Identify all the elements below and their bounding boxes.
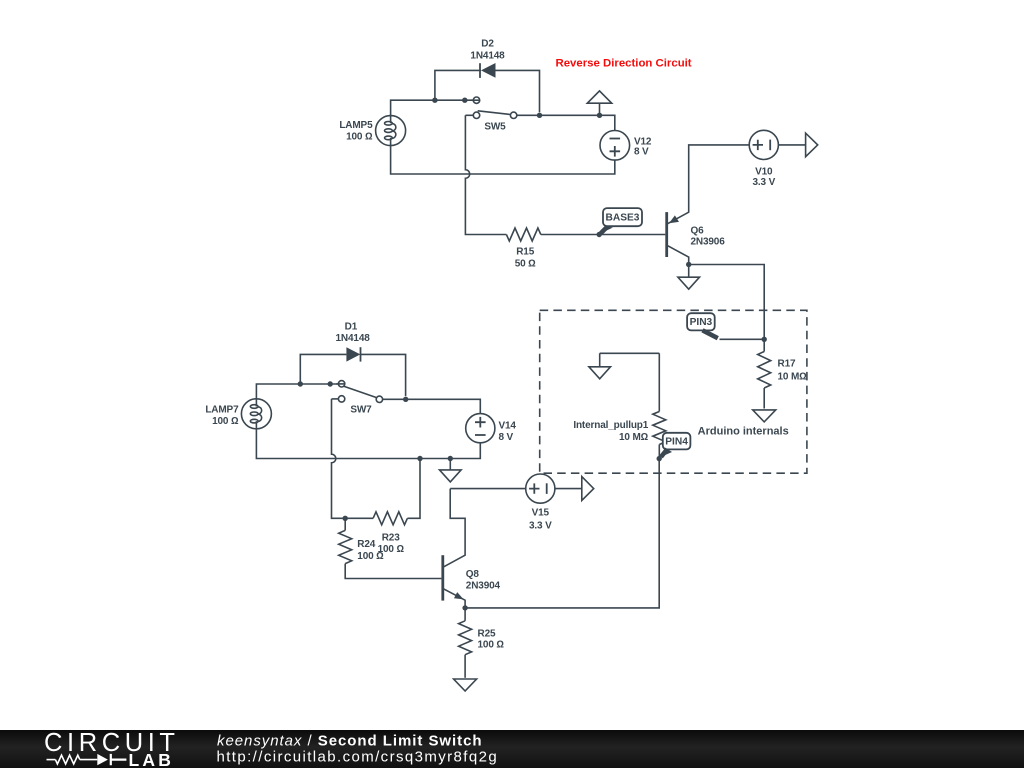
svg-text:V15: V15 <box>532 508 550 519</box>
svg-text:PIN4: PIN4 <box>665 436 688 447</box>
output flag triangle <box>806 133 818 157</box>
wire V14 bottom loop to LAMP7 <box>256 429 480 459</box>
CircuitLab logo resistor-diode glyph <box>47 759 56 761</box>
svg-text:V10: V10 <box>755 167 773 178</box>
svg-text:10 MΩ: 10 MΩ <box>778 372 808 383</box>
svg-text:R15: R15 <box>516 247 534 258</box>
resistor R24 <box>344 518 346 530</box>
wire SW7 throw down with hop to R23 <box>332 399 374 518</box>
svg-text:R24: R24 <box>357 539 375 550</box>
node PIN3 dot <box>762 337 767 342</box>
svg-text:SW5: SW5 <box>484 121 506 132</box>
wire R23 to bottom wire <box>407 459 420 519</box>
wire ground to pullup <box>600 352 660 354</box>
ground under Q6 <box>688 265 690 278</box>
svg-text:Q8: Q8 <box>466 569 480 580</box>
node BASE3 dot <box>597 232 602 237</box>
lamp LAMP7 <box>241 399 271 429</box>
wire lamp5 top to SW5 throw <box>391 100 480 115</box>
flag PIN4 <box>663 433 691 450</box>
node junction dot <box>403 397 408 402</box>
power rail flag above V12 <box>599 103 601 115</box>
svg-text:http://circuitlab.com/crsq3myr: http://circuitlab.com/crsq3myr8fq2g <box>217 749 499 766</box>
svg-text:100 Ω: 100 Ω <box>357 551 384 562</box>
wire D1 left vertical <box>300 354 346 384</box>
wire V10 to output flag <box>778 144 805 146</box>
wire V12 bottom loop to LAMP5 <box>391 146 615 174</box>
node PIN4 dot <box>657 456 662 461</box>
svg-text:Reverse Direction Circuit: Reverse Direction Circuit <box>556 57 692 69</box>
svg-text:8 V: 8 V <box>499 432 514 443</box>
svg-text:100 Ω: 100 Ω <box>478 639 505 650</box>
diode D1 <box>346 347 360 361</box>
flag BASE3 <box>603 208 642 226</box>
node junction dot <box>417 456 422 461</box>
svg-text:2N3904: 2N3904 <box>466 580 501 591</box>
svg-text:V14: V14 <box>499 421 517 432</box>
svg-text:D1: D1 <box>345 321 358 332</box>
svg-text:LAMP5: LAMP5 <box>339 120 373 131</box>
switch SW7 <box>332 398 339 400</box>
svg-text:1N4148: 1N4148 <box>336 333 371 344</box>
node Q6 collector dot <box>686 262 691 267</box>
node junction dot <box>537 113 542 118</box>
wire SW5 pole down to R15 with hop <box>465 115 506 234</box>
voltage source V12 <box>600 131 630 161</box>
node junction dot <box>432 98 437 103</box>
switch SW5 <box>465 114 473 116</box>
resistor R25 <box>464 608 466 621</box>
svg-text:LAMP7: LAMP7 <box>205 405 239 416</box>
wire Q6 collector to R17 <box>689 265 765 340</box>
wire D2 to right vertical <box>496 70 540 112</box>
svg-text:Arduino internals: Arduino internals <box>698 425 789 437</box>
node junction dot <box>597 113 602 118</box>
svg-text:PIN3: PIN3 <box>690 317 713 328</box>
resistor R17 <box>763 339 765 351</box>
svg-text:R23: R23 <box>382 533 400 544</box>
wire SW5 common to V12 <box>517 115 615 130</box>
voltage source V14 <box>466 414 495 443</box>
svg-text:LAB: LAB <box>129 750 175 768</box>
wire PIN4 down to Q8 emitter <box>465 459 659 608</box>
svg-text:3.3 V: 3.3 V <box>529 521 552 532</box>
wire D2 left vertical <box>435 70 481 100</box>
svg-text:50 Ω: 50 Ω <box>515 258 536 269</box>
ground under R25 <box>454 679 477 691</box>
transistor Q8 2N3904 <box>441 555 444 600</box>
flag PIN3 <box>720 338 765 340</box>
svg-text:SW7: SW7 <box>350 404 372 415</box>
lamp LAMP5 <box>376 116 406 146</box>
svg-text:keensyntax / Second Limit Swit: keensyntax / Second Limit Switch <box>217 732 482 749</box>
output flag triangle <box>582 477 594 501</box>
wire lamp7 top to SW7 <box>256 384 344 399</box>
svg-text:3.3 V: 3.3 V <box>752 177 775 188</box>
transistor Q6 2N3906 <box>665 212 668 257</box>
svg-text:Internal_pullup1: Internal_pullup1 <box>573 420 648 431</box>
resistor R23 <box>373 512 407 525</box>
svg-text:100 Ω: 100 Ω <box>212 416 239 427</box>
svg-text:D2: D2 <box>481 38 494 49</box>
ground under bottom wire <box>449 459 451 470</box>
voltage source V15 <box>450 488 526 490</box>
node junction dot <box>298 381 303 386</box>
node junction dot <box>448 456 453 461</box>
resistor Internal_pullup1 <box>658 353 660 411</box>
ground inside box <box>599 353 601 367</box>
wire D1 to right vertical <box>361 354 406 396</box>
svg-text:1N4148: 1N4148 <box>470 50 505 61</box>
resistor R15 <box>506 228 540 241</box>
wire SW7 common to V14 <box>383 399 481 413</box>
node junction dot <box>328 381 333 386</box>
svg-text:10 MΩ: 10 MΩ <box>619 432 649 443</box>
footer bar <box>0 730 1024 768</box>
node junction dot <box>462 98 467 103</box>
node Q8 emitter dot <box>462 605 467 610</box>
svg-text:8 V: 8 V <box>634 146 649 157</box>
wire R15 to Q6 base <box>541 234 666 236</box>
wire V15 to output flag <box>555 488 582 490</box>
diode D2 <box>479 63 481 78</box>
svg-text:R17: R17 <box>778 359 796 370</box>
svg-text:100 Ω: 100 Ω <box>346 131 373 142</box>
svg-text:2N3906: 2N3906 <box>691 237 726 248</box>
svg-text:BASE3: BASE3 <box>606 212 640 223</box>
ground under R17 <box>753 410 776 422</box>
svg-text:Q6: Q6 <box>691 225 705 236</box>
node R24 dot <box>343 516 348 521</box>
voltage source V10 <box>749 130 778 159</box>
svg-text:R25: R25 <box>478 629 496 640</box>
dashed box Arduino internals <box>540 310 807 473</box>
